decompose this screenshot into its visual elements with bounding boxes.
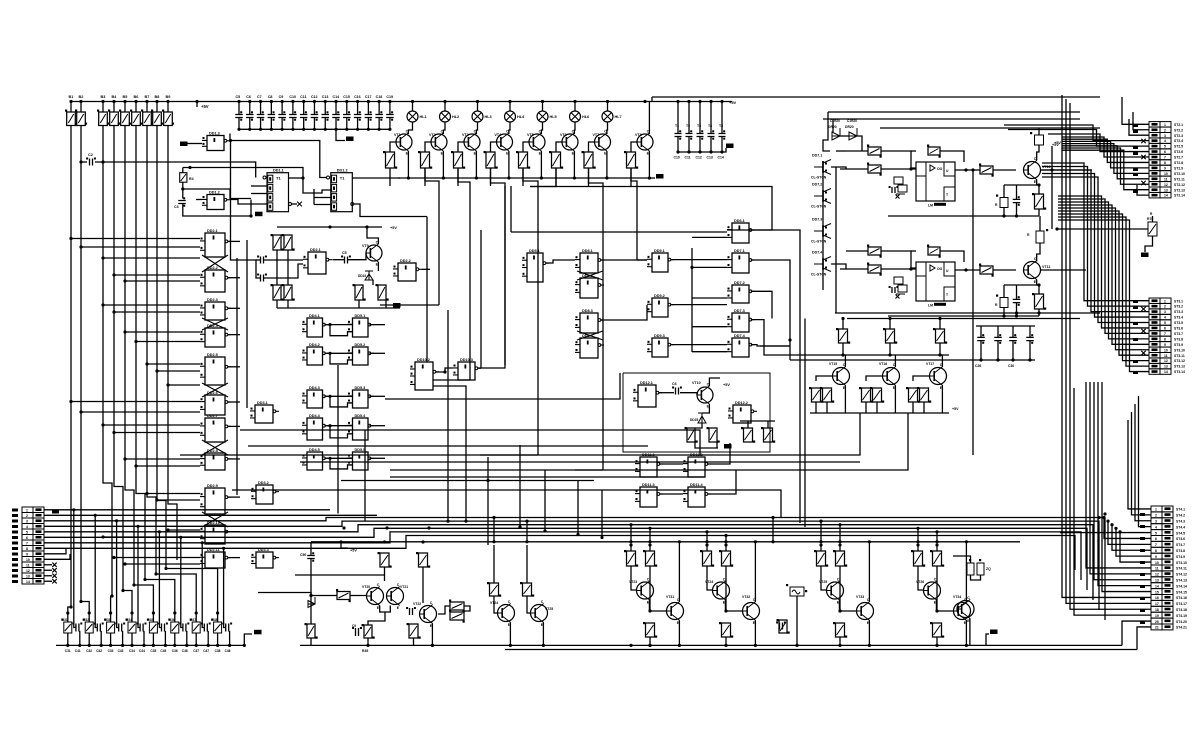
- logic gate DD9.3: [652, 338, 668, 357]
- wire mos drop b: [832, 119, 834, 132]
- logic gate DD2.6 left column: [205, 395, 225, 415]
- resistor R12 base: [454, 152, 463, 168]
- svg-text:R38: R38: [212, 618, 218, 622]
- transistor VT9 osc: [366, 245, 382, 261]
- wire capg C107 bottom: [699, 137, 701, 153]
- wire lamp HL5 top lead: [542, 102, 544, 112]
- net label ST1.8: [12, 547, 18, 550]
- junction rc cap gnd 2: [100, 644, 103, 647]
- wire conn2 row 11 feed: [1058, 211, 1149, 355]
- svg-text:VT31: VT31: [666, 595, 674, 599]
- svg-text:C32: C32: [86, 649, 92, 653]
- wire +5V rail bottom: [311, 541, 1020, 543]
- net label ST1.11: [12, 564, 18, 567]
- svg-text:DD2.1: DD2.1: [207, 229, 218, 233]
- capacitor C108: [708, 134, 715, 137]
- wire out node drop A: [1004, 184, 1037, 186]
- net label conn2: [1133, 338, 1138, 341]
- svg-text:VT20: VT20: [362, 585, 370, 589]
- junction field tap 13: [79, 410, 82, 413]
- svg-text:VT7: VT7: [593, 133, 600, 137]
- wire rc cap up 6: [181, 617, 183, 628]
- junction lamp top col 4: [508, 100, 511, 103]
- logic gate DD1.2: [207, 195, 224, 210]
- wire rc cap vertical 8: [223, 548, 225, 617]
- wire RK9 top lead: [167, 102, 169, 113]
- wire R12 drive drop: [457, 168, 459, 186]
- svg-text:9: 9: [26, 552, 28, 556]
- svg-text:9: 9: [1164, 343, 1166, 347]
- junction cg left: [788, 338, 791, 341]
- svg-text:C: C: [647, 130, 650, 134]
- junction stage feed x937: [935, 530, 938, 533]
- svg-text:C11: C11: [300, 95, 306, 99]
- wire cap C11 bottom lead: [303, 118, 305, 130]
- wire vert x973: [972, 170, 974, 455]
- junction field tap 14: [101, 423, 104, 426]
- svg-text:19: 19: [1155, 614, 1159, 618]
- svg-text:DD2.5: DD2.5: [207, 353, 218, 357]
- net label ST1.6: [12, 536, 18, 539]
- wire cg c0 up: [980, 326, 982, 337]
- junction top bus col 1: [69, 100, 72, 103]
- junction drv1 a: [629, 543, 632, 546]
- wire cap C5 top lead: [238, 102, 240, 115]
- junction lamp top col 7: [606, 100, 609, 103]
- junction field tap 9: [145, 362, 148, 365]
- wire vd30 link: [310, 570, 312, 624]
- logic gate DD2.3 left column: [205, 302, 225, 320]
- wire out to base A: [993, 169, 1016, 171]
- logic gate DD2.9 left column: [205, 488, 225, 514]
- wire top mid res right B: [940, 251, 964, 262]
- junction drv2 b: [724, 543, 727, 546]
- ground cap row: [346, 137, 354, 142]
- svg-text:DD1.3: DD1.3: [209, 132, 220, 136]
- capacitor C18: [375, 115, 383, 118]
- net label conn3: [1140, 525, 1145, 528]
- wire rc cap gnd 2: [99, 632, 102, 646]
- transistor VT8: [637, 134, 653, 150]
- resistor R55 midright: [839, 329, 848, 343]
- junction stage feed x527: [525, 520, 528, 523]
- capacitor C106: [686, 134, 693, 137]
- junction stage rail x631: [629, 540, 632, 543]
- wire RK7 top lead: [146, 102, 148, 113]
- svg-text:R35: R35: [147, 618, 153, 622]
- wire C3 bottom to gnd bus: [183, 204, 251, 217]
- resistor small out A: [1000, 198, 1008, 208]
- wire cap C14 top lead: [335, 102, 337, 115]
- wire chip out A: [955, 169, 980, 171]
- wire conn1 row 8 feed: [1062, 139, 1149, 162]
- junction field tap 11: [166, 383, 169, 386]
- svg-text:ST2.6: ST2.6: [1174, 150, 1183, 154]
- varistor RU8: [214, 622, 222, 633]
- svg-text:VT2: VT2: [429, 133, 436, 137]
- wire cg c2 up: [1012, 326, 1014, 337]
- svg-text:VT34: VT34: [953, 595, 961, 599]
- diode VD25 oneshot: [698, 413, 706, 423]
- wire mid v x520: [519, 445, 521, 528]
- wire grid row 1 out: [369, 324, 385, 326]
- svg-text:CL-GTCN: CL-GTCN: [811, 205, 827, 209]
- junction bottom bus x543.4: [542, 644, 545, 647]
- wire conn3 row 10 feed (bus turn): [1120, 532, 1151, 562]
- net label bus blob: [52, 510, 59, 514]
- svg-text:ST4.1: ST4.1: [1176, 508, 1185, 512]
- wire rc comp up 6: [174, 613, 176, 622]
- junction drv3 base2: [838, 609, 841, 612]
- junction rc stair 8: [164, 567, 167, 570]
- wire mid long h1: [240, 430, 700, 455]
- wire left field vertical 7: [147, 126, 156, 575]
- wire midright rail y355: [810, 354, 949, 356]
- wire mr r2 bot: [939, 343, 941, 355]
- svg-text:VT23: VT23: [629, 580, 637, 584]
- junction conn3 bus turn 6: [1102, 516, 1105, 519]
- wire left gate 3 out: [228, 307, 240, 309]
- svg-text:C: C: [430, 601, 433, 605]
- junction field tap 12: [69, 400, 72, 403]
- svg-text:ST3.5: ST3.5: [1174, 321, 1183, 325]
- wire mid h y462: [300, 461, 860, 463]
- wire drv4 r1 top: [917, 545, 919, 551]
- svg-text:C: C: [377, 583, 380, 587]
- wire vt25 chain: [527, 596, 531, 613]
- svg-text:DD7.2: DD7.2: [812, 183, 822, 187]
- wire conn3 row 6 feed (bus turn): [1104, 518, 1151, 539]
- wire oneshot vt emitter: [702, 404, 709, 413]
- wire capg C106 bottom: [688, 137, 690, 153]
- connector XS2: [1149, 122, 1160, 127]
- wire field tap 18: [147, 493, 200, 495]
- wire R emitter to bus B: [1038, 309, 1040, 316]
- wire vt24 chain: [494, 596, 498, 613]
- svg-text:C13: C13: [707, 156, 713, 160]
- transistor VT4: [497, 134, 513, 150]
- wire field tap 6: [114, 311, 200, 313]
- wire cg bot rail: [790, 359, 1035, 361]
- junction cap row top col 8: [313, 100, 316, 103]
- junction VT1 emitter bus: [407, 176, 410, 179]
- svg-text:DD9.3: DD9.3: [654, 334, 665, 338]
- wire cap C7 bottom lead: [260, 118, 262, 130]
- svg-text:C48: C48: [225, 649, 231, 653]
- svg-text:10: 10: [1164, 348, 1168, 352]
- wire drive1 down: [425, 168, 439, 305]
- wire mr vt1 em: [894, 386, 896, 414]
- wire osc r6 down: [276, 250, 278, 285]
- wire ST1 row10 stub: [44, 554, 70, 559]
- diode VD24 osc: [365, 271, 373, 280]
- logic gate DD8.2 crosspair: [580, 278, 598, 298]
- wire rc comp up 3: [110, 613, 112, 622]
- wire DD11 out1: [708, 443, 730, 464]
- wire cg c1 up: [997, 326, 999, 337]
- svg-text:8: 8: [1155, 549, 1157, 553]
- svg-text:DD5.4: DD5.4: [355, 414, 367, 418]
- junction capg bottom 5: [720, 150, 723, 153]
- wire zq feeds: [971, 575, 981, 580]
- wire cg c3 up: [1029, 326, 1031, 337]
- wire conn3 row 5 feed: [1060, 532, 1151, 534]
- junction mr r2 top: [938, 317, 941, 320]
- wire VT right emitter B: [1037, 280, 1039, 295]
- logic gate DD12.1 oneshot: [638, 385, 656, 407]
- svg-text:ST4.20: ST4.20: [1176, 620, 1187, 624]
- wire res to node B: [881, 251, 916, 268]
- svg-text:1: 1: [1164, 123, 1166, 127]
- wire conn1 row 13 feed: [1062, 150, 1149, 190]
- resistor R9 osc: [284, 285, 292, 300]
- junction conn3 bus turn 9: [1114, 527, 1117, 530]
- svg-text:CL-GTCN: CL-GTCN: [811, 273, 827, 277]
- svg-text:C44: C44: [139, 649, 145, 653]
- svg-text:12: 12: [1164, 359, 1168, 363]
- svg-text:ST3.11: ST3.11: [1174, 354, 1185, 358]
- wire R15 drive drop: [555, 168, 557, 186]
- svg-text:R32: R32: [83, 618, 89, 622]
- junction drv3 gnd2: [868, 644, 871, 647]
- wire capg C108 bottom: [710, 137, 712, 153]
- junction rc cap row 1: [72, 508, 75, 511]
- svg-text:C6: C6: [246, 95, 251, 99]
- wire cap C9 bottom lead: [281, 118, 283, 130]
- junction grid row 1: [328, 323, 331, 326]
- junction field tap 0: [69, 237, 72, 240]
- wire grid row 2 loop: [330, 353, 353, 364]
- resistor R15 base: [552, 152, 561, 168]
- resistor R16: [744, 428, 753, 442]
- wire mr cell gnd2 2: [923, 402, 925, 413]
- component G1 box: [790, 587, 804, 596]
- wire mr base wire 0: [816, 376, 833, 381]
- wire r16r17 rail: [740, 420, 775, 422]
- logic gate DD9.1: [652, 253, 668, 272]
- svg-text:LM: LM: [928, 304, 933, 308]
- wire mr vt0 coll: [844, 355, 846, 367]
- wire mr vt2 coll: [941, 355, 943, 367]
- svg-text:5: 5: [26, 530, 28, 534]
- wire mos col vert2: [835, 167, 837, 313]
- svg-text:DD6.1: DD6.1: [734, 219, 745, 223]
- junction stage rail x840: [838, 540, 841, 543]
- wire conn1 row 11 feed: [1062, 146, 1149, 179]
- resistor R35 out: [980, 266, 993, 274]
- svg-text:VT25: VT25: [819, 580, 827, 584]
- svg-text:DD5.2: DD5.2: [355, 343, 366, 347]
- svg-text:12: 12: [1164, 183, 1168, 187]
- transistor VT26 drv: [924, 582, 941, 599]
- resistor R63 mr base b: [823, 388, 832, 402]
- wire cap C19 top lead: [389, 102, 391, 115]
- junction rc cap gnd 8: [228, 644, 231, 647]
- wire DD7 outs: [751, 260, 790, 313]
- svg-text:DD4.4: DD4.4: [309, 414, 321, 418]
- junction grid row 2: [328, 352, 331, 355]
- wire conn1 row 4 feed: [1004, 125, 1149, 141]
- junction stage feed x631: [629, 523, 632, 526]
- junction cap row top col 1: [237, 100, 240, 103]
- junction cap row bottom col 14: [378, 128, 381, 131]
- junction cap row bottom col 13: [367, 128, 370, 131]
- junction rc cap row 4: [136, 525, 139, 528]
- wire DD1.2T pin3: [314, 204, 331, 206]
- svg-text:8: 8: [26, 547, 28, 551]
- svg-text:DD8.1: DD8.1: [582, 249, 593, 253]
- wire g1 down: [796, 596, 798, 645]
- wire stage feed x937: [936, 532, 938, 542]
- wire left bus row 8 (mega bus): [44, 536, 1075, 571]
- junction stageA b2: [383, 540, 386, 543]
- junction cap row bottom col 12: [356, 128, 359, 131]
- wire capg gnd link: [722, 148, 726, 152]
- logic gate DD2.8 left column: [205, 453, 225, 470]
- pin bubble DD1.2T in: [327, 176, 330, 179]
- wire field tap 5: [103, 304, 200, 306]
- wire grid row 1 loop: [330, 325, 353, 336]
- net label conn3: [1140, 573, 1145, 576]
- junction rc top 5: [152, 611, 155, 614]
- junction RK bottom: [181, 187, 184, 190]
- junction rc cap row 8: [222, 547, 225, 550]
- junction field tap 21: [101, 535, 104, 538]
- resistor R mid right: [1036, 231, 1044, 243]
- junction stageA gnd: [366, 644, 369, 647]
- svg-text:T1: T1: [276, 176, 281, 181]
- junction bus cross x520: [518, 525, 521, 528]
- wire T1 feedback loop: [229, 134, 231, 141]
- svg-text:ST4.2: ST4.2: [1176, 514, 1185, 518]
- wire drv3 collector up: [868, 542, 870, 602]
- wire rc cap up 2: [95, 617, 97, 628]
- wire C out bot A: [1016, 203, 1018, 216]
- junction mr r1 top: [888, 317, 891, 320]
- junction top bus col 4: [112, 100, 115, 103]
- svg-text:C: C: [541, 600, 544, 604]
- junction cap row bottom col 3: [259, 128, 262, 131]
- svg-text:ZQ: ZQ: [986, 567, 991, 571]
- varistor RU6: [171, 622, 179, 633]
- capacitor C107: [697, 134, 704, 137]
- wire C2 to T1 input: [95, 162, 256, 178]
- svg-text:R45: R45: [362, 649, 368, 653]
- svg-text:DD12.2: DD12.2: [735, 401, 748, 405]
- wire vt25 em: [542, 623, 544, 646]
- svg-text:DD8.3: DD8.3: [582, 309, 593, 313]
- connector XS4: [1151, 506, 1162, 512]
- junction drv3 b: [838, 543, 841, 546]
- junction mr cell 2: [938, 353, 941, 356]
- wire drive7 tail: [637, 259, 647, 261]
- ground cap group: [726, 144, 734, 149]
- svg-text:7: 7: [1155, 543, 1157, 547]
- net label conn1: [1133, 130, 1138, 133]
- logic gate DD5.1 midleft: [527, 253, 543, 282]
- capacitor C7: [257, 115, 265, 118]
- wire E1 to DD1.3: [188, 143, 203, 145]
- wire mos col vert1: [822, 161, 824, 290]
- wire lamp to VT2 collector: [443, 122, 445, 134]
- svg-text:C3: C3: [174, 205, 179, 209]
- junction stage feed x840: [838, 523, 841, 526]
- wire drive3 down: [491, 168, 506, 365]
- svg-text:C9: C9: [279, 95, 284, 99]
- wire DD6.1 out: [751, 230, 800, 313]
- transistor VT24 drv: [713, 582, 730, 599]
- wire cap group bottom bus: [678, 151, 722, 153]
- svg-text:+5V: +5V: [952, 407, 959, 411]
- wire RK6 top lead: [135, 102, 137, 113]
- svg-text:16: 16: [1155, 596, 1159, 600]
- transistor VT25: [531, 605, 548, 622]
- svg-text:DD9.1: DD9.1: [654, 249, 665, 253]
- svg-text:17: 17: [1155, 602, 1159, 606]
- wire big loop right: [480, 230, 482, 368]
- wire conn2 row 5 feed: [1042, 177, 1149, 323]
- svg-text:DD11.4: DD11.4: [690, 483, 704, 487]
- svg-text:+5V: +5V: [1054, 141, 1061, 145]
- transistor VT24: [498, 605, 515, 622]
- varistor RU2: [85, 622, 93, 633]
- capacitor C29 cg: [1026, 337, 1034, 340]
- wire cross-couple pair: [202, 318, 228, 330]
- junction field tap 10: [155, 369, 158, 372]
- nc mark conn1 row: [1141, 139, 1145, 143]
- wire rc comp gnd 6: [174, 633, 176, 645]
- junction DD7 rail top: [690, 266, 693, 269]
- wire capg C106 top: [688, 102, 690, 134]
- ground rc row: [254, 630, 262, 635]
- wire conn3 row 1 feed: [1128, 420, 1151, 509]
- junction baseA: [309, 594, 312, 597]
- junction field tap 16: [123, 457, 126, 460]
- resistor R56 midright: [886, 329, 895, 343]
- wire rc comp up 5: [152, 613, 154, 622]
- wire r17 top: [767, 421, 769, 428]
- junction stage feed x494: [492, 516, 495, 519]
- wire cg c2 dn: [1012, 341, 1014, 360]
- wire rc cap vertical 4: [137, 526, 139, 617]
- wire DD7 in stub y267.4: [692, 266, 727, 268]
- wire lamp HL7 top lead: [607, 102, 609, 112]
- wire conn1 row 7 feed: [1062, 137, 1149, 157]
- junction stage feed x773: [771, 516, 774, 519]
- wire res2 to chip B: [881, 268, 916, 270]
- wire field tap 17: [136, 465, 200, 467]
- wire midright bus top: [789, 312, 791, 314]
- transistor VT34 drv2: [954, 603, 971, 620]
- wire vt22 em: [431, 624, 433, 646]
- svg-text:3: 3: [26, 519, 28, 523]
- capacitor C26 cg: [977, 337, 985, 340]
- net label conn1: [1133, 146, 1138, 149]
- wire cap C13 bottom lead: [324, 118, 326, 130]
- junction cap row top col 13: [367, 100, 370, 103]
- wire rc comp up 4: [131, 613, 133, 622]
- svg-text:15: 15: [1155, 590, 1159, 594]
- varistor RU3: [107, 622, 115, 633]
- svg-text:DD2.7: DD2.7: [207, 414, 218, 418]
- svg-text:ST3.10: ST3.10: [1174, 348, 1185, 352]
- photoresistor RK5: [121, 112, 130, 126]
- wire left field vertical 9: [168, 126, 177, 561]
- svg-text:C15: C15: [343, 95, 350, 99]
- svg-text:ST2.4: ST2.4: [1174, 139, 1183, 143]
- junction C2 left: [79, 160, 82, 163]
- wire grid row 3 thru: [330, 395, 353, 397]
